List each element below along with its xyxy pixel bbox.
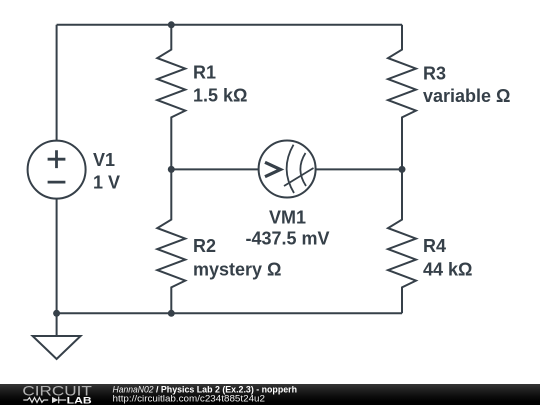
resistor R1 bbox=[157, 25, 185, 170]
resistor R3 bbox=[388, 25, 416, 170]
svg-text:R4: R4 bbox=[423, 236, 446, 256]
resistor R4 bbox=[388, 169, 416, 313]
wire V1 bottom lead bbox=[56, 199, 58, 314]
voltmeter VM1 bbox=[259, 141, 316, 198]
circuitlab logo bbox=[0, 384, 110, 405]
svg-text:1 V: 1 V bbox=[93, 173, 120, 193]
svg-text:VM1: VM1 bbox=[269, 207, 306, 227]
svg-text:R3: R3 bbox=[423, 64, 446, 84]
resistor R2 bbox=[157, 169, 185, 313]
node mid left junction bbox=[168, 166, 175, 173]
footer bar bbox=[0, 384, 540, 405]
svg-text:mystery Ω: mystery Ω bbox=[193, 260, 281, 280]
svg-text:LAB: LAB bbox=[67, 395, 93, 405]
wire mid left bbox=[171, 168, 259, 170]
node bottom left junction bbox=[53, 310, 60, 317]
node top junction bbox=[168, 21, 175, 28]
svg-text:variable Ω: variable Ω bbox=[423, 86, 510, 106]
footer text bbox=[100, 384, 540, 405]
svg-text:V1: V1 bbox=[93, 150, 115, 170]
svg-text:R2: R2 bbox=[193, 236, 216, 256]
voltage source V1 bbox=[28, 141, 86, 199]
node mid right junction bbox=[399, 166, 406, 173]
node bottom mid junction bbox=[168, 310, 175, 317]
svg-text:1.5 kΩ: 1.5 kΩ bbox=[193, 86, 247, 106]
wire mid right bbox=[316, 168, 402, 170]
svg-text:R1: R1 bbox=[193, 63, 216, 83]
wire bottom horizontal bbox=[57, 312, 402, 314]
wire top horizontal bbox=[57, 24, 402, 26]
wire left vertical (V1 top lead) bbox=[56, 25, 58, 141]
ground bbox=[56, 313, 58, 336]
svg-text:http://circuitlab.com/c234t885: http://circuitlab.com/c234t885t24u2 bbox=[113, 394, 266, 404]
svg-text:-437.5 mV: -437.5 mV bbox=[245, 229, 329, 249]
svg-text:44 kΩ: 44 kΩ bbox=[423, 260, 472, 280]
